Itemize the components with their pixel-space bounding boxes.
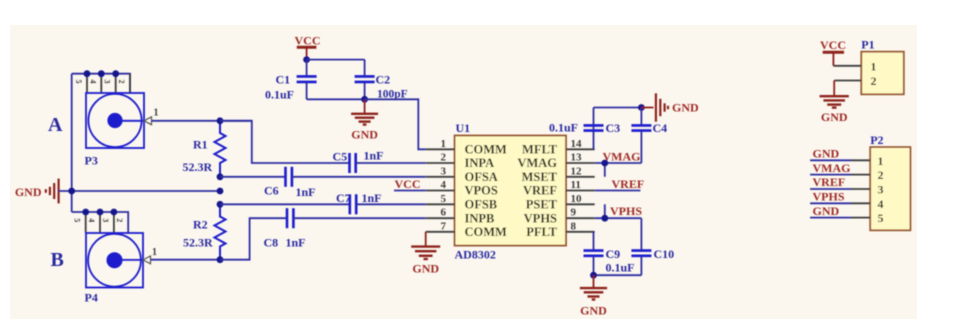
P2 pin 4 VPHS [810,190,883,211]
label C7 [336,191,351,205]
wire C8 feed [220,218,287,260]
U1 pin 11 VREF [523,179,595,198]
svg-text:VPHS: VPHS [610,204,642,218]
ground GND mid [351,99,378,141]
svg-text:1nF: 1nF [286,236,306,250]
wire C8 to pin6 [293,217,425,219]
capacitor C8 [287,208,293,228]
wire R1 to C6 [220,176,285,178]
U1 pin 7 COMM [426,220,507,239]
svg-text:GND: GND [672,101,699,115]
svg-text:VCC: VCC [820,38,846,52]
P4 pin 1 arrow [143,256,151,264]
U1 pin 3 OFSA [426,165,498,184]
power VCC top [295,34,321,60]
node A label [48,114,63,136]
wire C5 to pin2 [356,162,426,164]
P4 pin 1 label [152,247,157,258]
junction dot C9 bottom [590,272,597,279]
P1 pin 2 [834,74,876,88]
svg-text:GND: GND [821,110,848,124]
capacitor C4 [631,108,651,164]
svg-text:GND: GND [351,128,378,142]
svg-text:0.1uF: 0.1uF [265,88,294,102]
svg-text:C6: C6 [264,184,279,198]
resistor R1 [215,121,226,177]
label R2 [193,218,208,232]
svg-text:3: 3 [878,183,884,197]
P4 pin number 3 [101,218,110,222]
svg-text:1nF: 1nF [364,149,384,163]
svg-text:VCC: VCC [395,177,421,191]
U1 pin 10 PSET [526,193,595,212]
label U1 [456,121,471,135]
svg-text:8: 8 [571,220,577,232]
capacitor C10 [631,251,651,276]
junction dot VCC [303,56,310,63]
svg-text:4: 4 [88,80,97,84]
svg-text:1: 1 [871,59,877,73]
wire VCC to pin4 [394,190,426,192]
value AD8302 [455,248,496,262]
svg-text:7: 7 [441,220,447,232]
svg-text:0.1uF: 0.1uF [606,261,635,275]
svg-text:6: 6 [441,207,447,219]
svg-text:C10: C10 [654,247,675,261]
P4 pin number 2 [115,218,124,222]
U1 pin 4 VPOS [426,179,498,198]
svg-text:GND: GND [580,304,607,318]
svg-text:P4: P4 [85,291,98,305]
label C4 [653,121,668,135]
wire C2 to pin1 [365,99,426,149]
P2 pin 1 GND [810,147,883,168]
connector P2 body [870,147,910,230]
value 52.3R (R1) [183,160,213,174]
svg-text:5: 5 [73,218,82,222]
net label VMAG [603,150,641,164]
svg-text:MSET: MSET [522,170,558,184]
wire VPHS down to C10 [640,218,642,250]
svg-text:13: 13 [571,152,583,164]
wire P4 top bus [72,212,129,233]
svg-text:P1: P1 [861,38,874,52]
U1 pin 9 VPHS [524,207,595,226]
wire GND to R column [59,190,220,192]
svg-text:VPOS: VPOS [465,184,498,198]
value 1nF (C8) [286,236,306,250]
P2 pin 3 VREF [810,175,883,196]
svg-text:3: 3 [101,218,110,222]
P4 pin number 5 [73,218,82,222]
value 0.1uF (C9) [606,261,635,275]
svg-text:5: 5 [441,193,447,205]
svg-text:GND: GND [412,262,439,276]
label C6 [264,184,279,198]
capacitor C6 [286,167,292,187]
svg-text:VPHS: VPHS [524,211,557,225]
svg-text:3: 3 [441,165,447,177]
svg-text:VMAG: VMAG [813,161,851,175]
U1 pin 1 COMM [426,138,507,157]
svg-text:0.1uF: 0.1uF [549,121,578,135]
svg-text:P2: P2 [870,133,883,147]
label C1 [276,73,291,87]
svg-text:GND: GND [813,204,840,218]
svg-text:1nF: 1nF [362,191,382,205]
svg-text:14: 14 [571,138,583,150]
junction dot VPHS [601,215,608,222]
wire VMAG to MSET [604,163,606,177]
resistor R2 [215,204,226,259]
svg-text:1nF: 1nF [296,185,316,199]
svg-text:COMM: COMM [465,225,508,239]
U1 pin 12 MSET [522,165,595,184]
wire P3 pin1 to C5 elbow [152,120,252,122]
label C10 [654,247,675,261]
svg-text:2: 2 [878,168,884,182]
svg-text:INPB: INPB [465,211,495,225]
junction dot top rail [638,104,645,111]
svg-text:R2: R2 [193,218,208,232]
P3 pin number 5 [74,80,83,84]
ground GND left [15,179,59,204]
label C3 [606,121,621,135]
svg-text:1: 1 [441,138,447,150]
svg-text:VREF: VREF [813,175,846,189]
svg-text:C2: C2 [376,73,391,87]
value 100pF (C2) [377,89,408,101]
svg-text:VMAG: VMAG [603,150,641,164]
svg-text:OFSA: OFSA [465,170,498,184]
IC U1 AD8302 body [455,136,566,246]
junction dots P3 bus [84,70,120,77]
svg-text:12: 12 [571,165,583,177]
U1 pin 14 MFLT [522,138,595,157]
value 1nF (C5) [364,149,384,163]
svg-text:C3: C3 [606,121,621,135]
ground GND top right [641,93,699,121]
svg-text:VREF: VREF [523,184,557,198]
wire R2 to C7 [220,203,350,205]
P1 pin 1 [833,59,876,73]
label C5 [333,150,348,164]
wire VCC top rail [307,59,365,61]
svg-text:P3: P3 [85,154,98,168]
svg-text:C8: C8 [264,236,279,250]
svg-text:2: 2 [441,152,447,164]
capacitor C5 [350,153,356,173]
value 1nF (C7) [362,191,382,205]
svg-text:R1: R1 [193,138,208,152]
svg-text:1: 1 [152,247,157,258]
U1 pin 6 INPB [426,207,495,226]
U1 pin 13 VMAG [517,152,594,171]
connector P3 [86,74,144,148]
wire C1 bottom rail [307,98,365,100]
ground GND under U1 [411,232,440,276]
label C9 [606,247,621,261]
svg-text:1: 1 [154,108,159,119]
svg-text:4: 4 [87,218,96,222]
svg-text:MFLT: MFLT [522,143,558,157]
svg-text:5: 5 [74,80,83,84]
label C2 [376,73,391,87]
junction dots P4 bus [82,209,117,216]
power VCC P1 [820,38,846,66]
svg-text:OFSB: OFSB [465,198,498,212]
wire P3 top bus [72,74,130,93]
svg-text:10: 10 [571,193,583,205]
net label VREF [612,177,645,191]
P2 pin 5 GND [810,204,883,225]
capacitor C1 [297,60,317,100]
svg-text:2: 2 [871,74,877,88]
value 0.1uF (C3) [549,121,578,135]
label P1 [861,38,874,52]
net label VPHS [610,204,642,218]
wire VMAG [595,162,642,164]
junction dot VMAG [601,160,608,167]
svg-text:11: 11 [571,179,581,191]
P2 pin 2 VMAG [810,161,883,182]
junction dot GND column [68,188,75,195]
U1 pin 5 OFSB [426,193,497,212]
wire VPHS [595,217,642,219]
P3 pin number 4 [88,80,97,84]
svg-text:PSET: PSET [526,198,558,212]
node B label [51,249,64,271]
value 1nF (C6) [296,185,316,199]
connector P1 body [861,52,904,95]
svg-text:AD8302: AD8302 [455,248,496,262]
svg-text:2: 2 [115,218,124,222]
wire VREF [595,190,641,192]
svg-text:C4: C4 [653,121,668,135]
P4 pin number 4 [87,218,96,222]
svg-text:VREF: VREF [612,177,645,191]
junction dots R column [217,117,224,263]
svg-text:5: 5 [878,211,884,225]
svg-text:52.3R: 52.3R [183,160,213,174]
wire C5 feed [220,121,349,163]
svg-text:C1: C1 [276,73,291,87]
svg-text:VCC: VCC [295,34,321,48]
label C8 [264,236,279,250]
svg-text:COMM: COMM [465,143,508,157]
wire C9 C10 bottom rail [594,274,642,276]
svg-text:C9: C9 [606,247,621,261]
U1 pin 2 INPA [426,152,494,171]
svg-text:3: 3 [103,80,112,84]
wire C6 to pin3 [292,176,426,178]
connector P4 [86,212,143,288]
junction dot C2 bottom [361,96,368,103]
svg-text:A: A [48,114,63,136]
wire left column A-B [71,74,73,212]
svg-text:2: 2 [117,80,126,84]
svg-text:C7: C7 [336,191,351,205]
P3 pin 1 arrow [144,117,152,125]
net label VCC (pin4) [395,177,421,191]
capacitor C3 [584,108,604,150]
capacitor C9 [584,232,604,275]
svg-text:GND: GND [15,185,42,199]
svg-text:52.3R: 52.3R [183,236,213,250]
P3 pin number 3 [103,80,112,84]
wire P4 pin1 to R2 bottom [151,259,221,261]
svg-text:VMAG: VMAG [517,156,557,170]
wire C7 to pin5 [356,203,426,205]
capacitor C7 [350,194,356,214]
wire PSET to VPHS [604,204,606,218]
svg-text:VPHS: VPHS [813,190,845,204]
label P3 [85,154,98,168]
value 52.3R (R2) [183,236,213,250]
wire C3 top rail [594,107,642,109]
label P2 [870,133,883,147]
capacitor C2 [355,60,375,100]
U1 pin 8 PFLT [526,220,595,239]
P3 pin number 2 [117,80,126,84]
svg-text:B: B [51,249,64,271]
svg-text:PFLT: PFLT [526,225,557,239]
ground GND P1 [820,81,849,125]
svg-text:C5: C5 [333,150,348,164]
svg-text:U1: U1 [456,121,471,135]
svg-text:INPA: INPA [465,156,495,170]
svg-text:4: 4 [878,197,884,211]
svg-text:1: 1 [878,154,884,168]
P3 pin 1 label [154,108,159,119]
svg-text:4: 4 [441,179,447,191]
ground GND bottom right [580,275,607,317]
value 0.1uF (C1) [265,88,294,102]
label P4 [85,291,98,305]
svg-text:9: 9 [571,207,577,219]
svg-text:GND: GND [813,147,840,161]
label R1 [193,138,208,152]
